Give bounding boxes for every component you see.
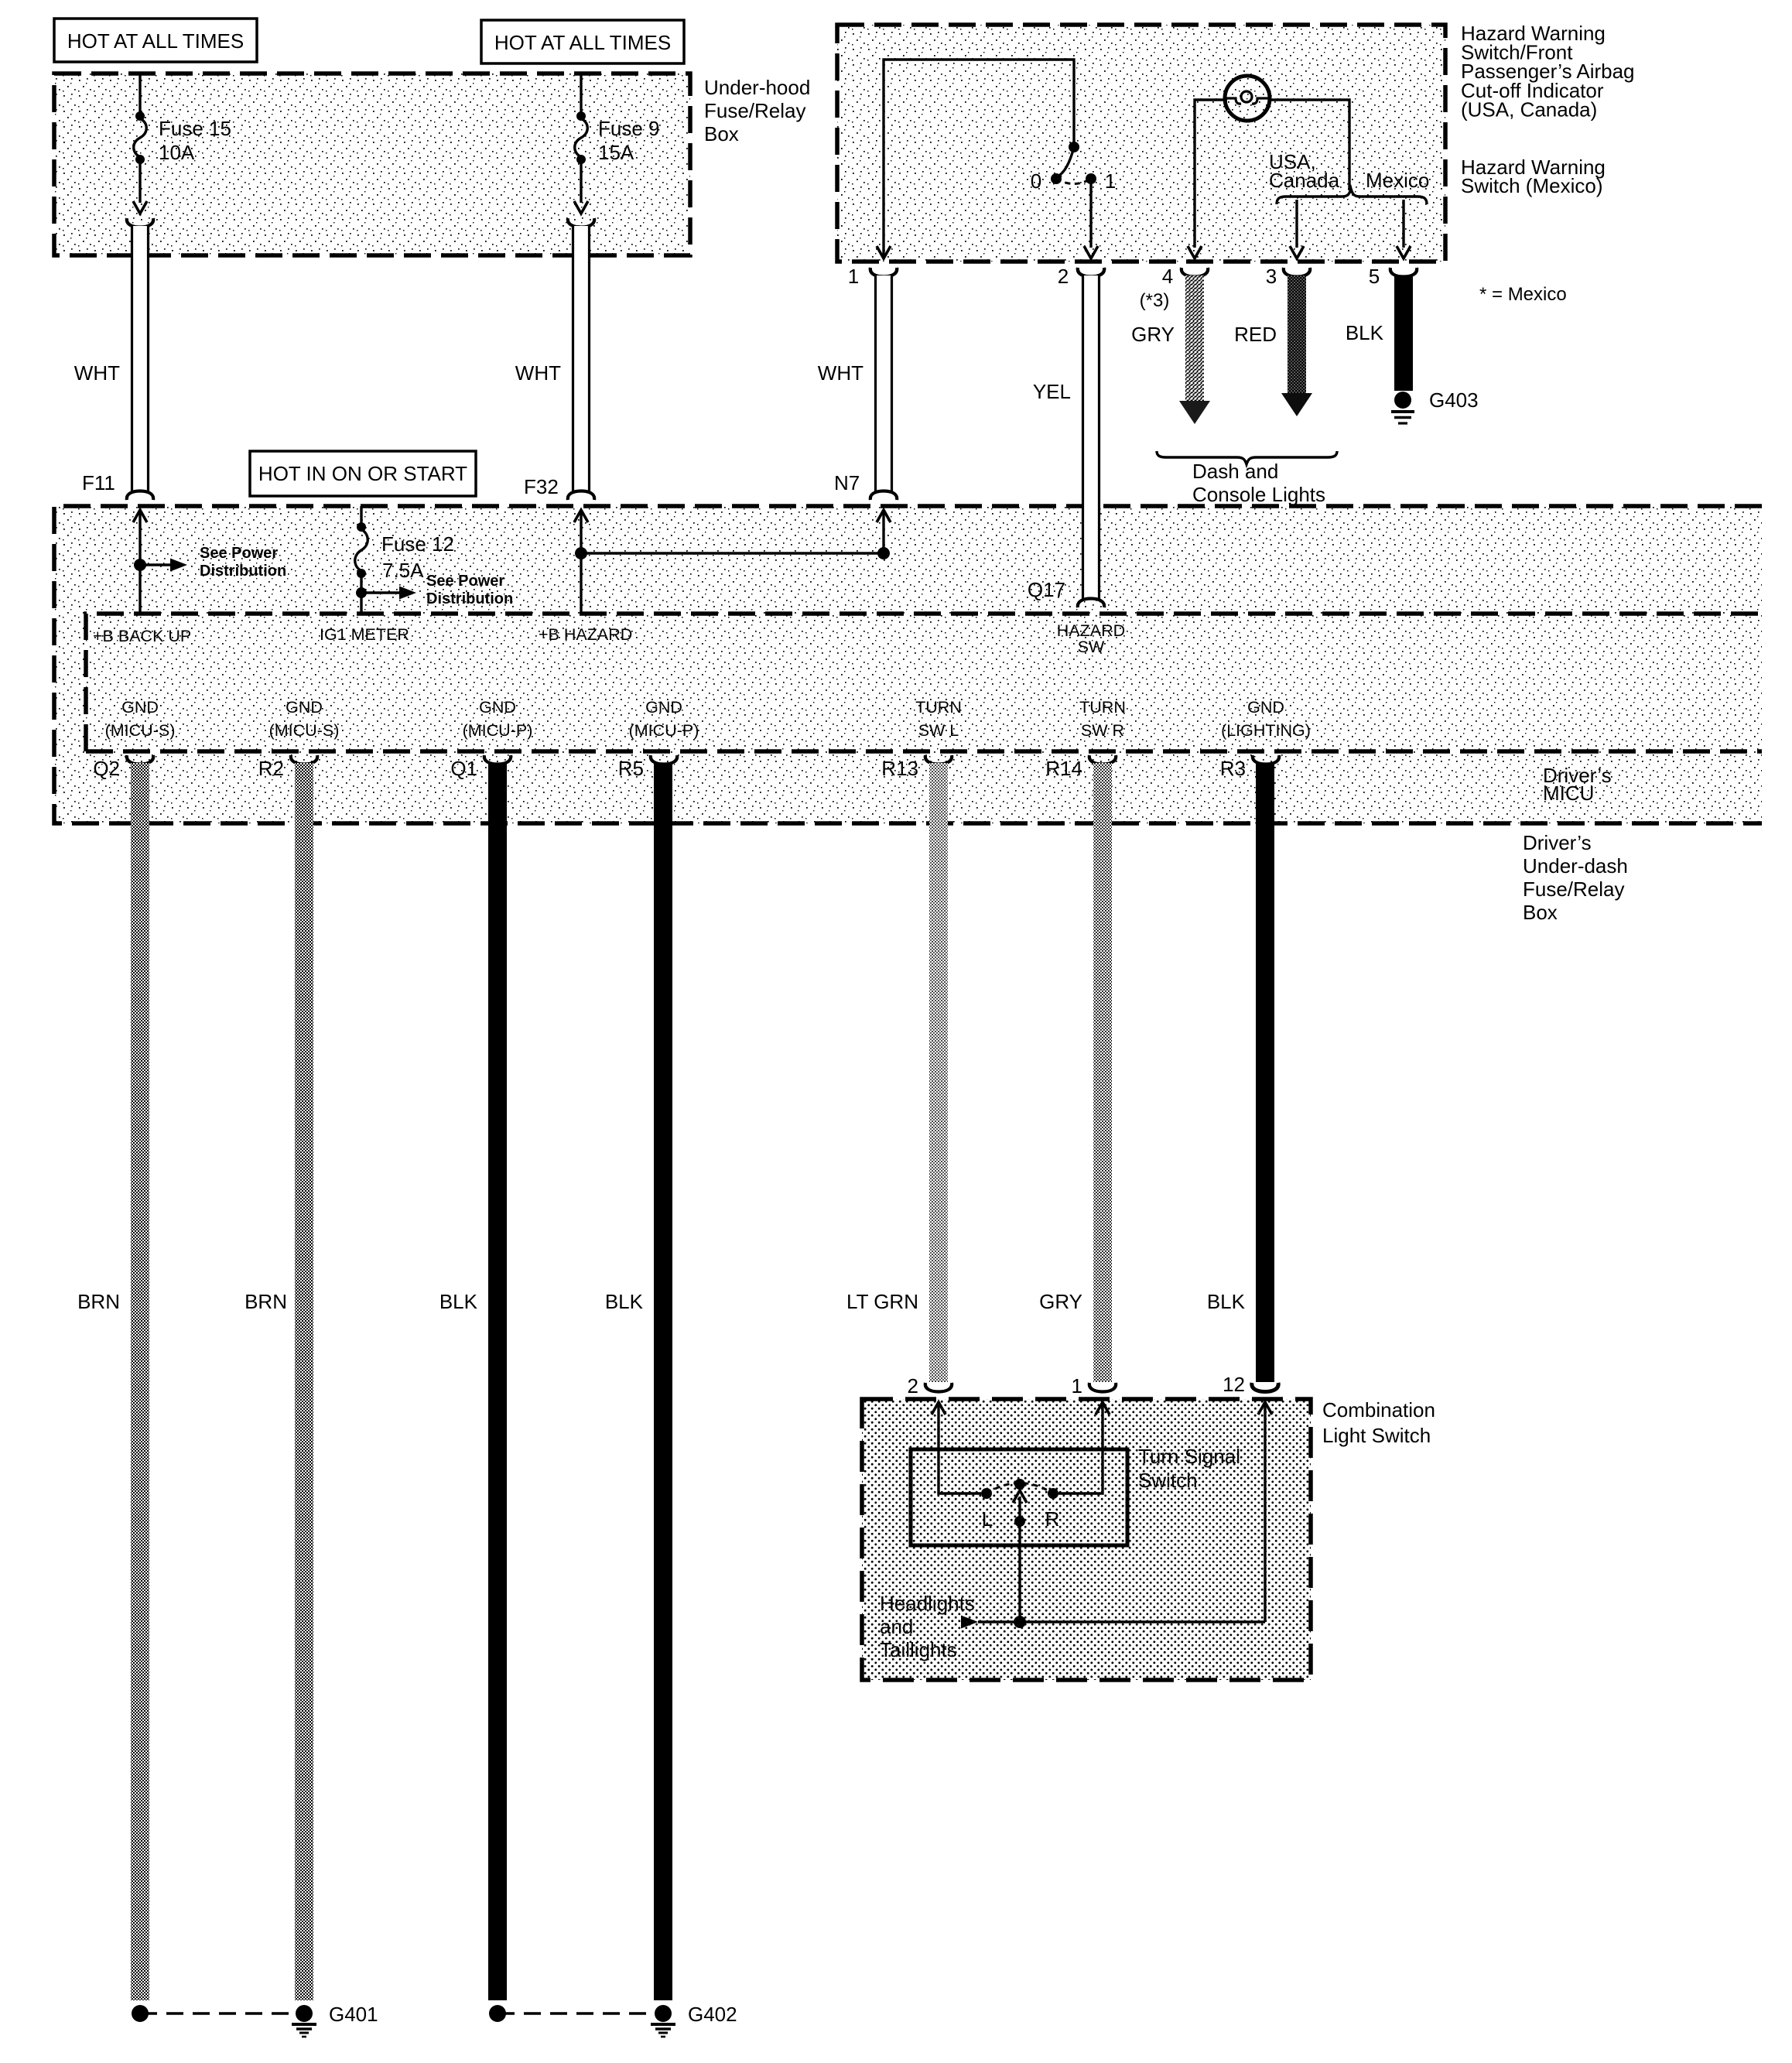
MICU pin function labels (105, 698, 1311, 740)
svg-text:TURN: TURN (915, 698, 962, 717)
svg-text:F32: F32 (524, 475, 559, 498)
wire hazard pin 1 internal (877, 60, 1074, 258)
svg-text:Taillights: Taillights (880, 1638, 957, 1661)
svg-text:R2: R2 (258, 757, 284, 780)
wire bulb right lead (1270, 100, 1349, 190)
label WHT (F32 wire) (515, 361, 561, 385)
svg-text:10A: 10A (159, 141, 195, 164)
hazard switch SW1 (0/1) (1031, 142, 1116, 258)
svg-text:Fuse/Relay: Fuse/Relay (1523, 878, 1625, 901)
svg-text:MICU: MICU (1543, 782, 1594, 805)
wire YEL hazard pin 2 to Q17 (1078, 268, 1104, 607)
svg-text:BLK: BLK (605, 1290, 644, 1313)
label Driver's Under-dash Fuse/Relay Box (1523, 831, 1628, 924)
svg-text:* = Mexico: * = Mexico (1479, 284, 1567, 305)
svg-text:(MICU-S): (MICU-S) (105, 721, 176, 740)
svg-text:SW L: SW L (918, 721, 959, 740)
svg-text:L: L (982, 1507, 993, 1531)
label Headlights and Taillights (880, 1592, 975, 1661)
ground G402 (489, 2003, 737, 2037)
svg-text:Headlights: Headlights (880, 1592, 975, 1615)
svg-text:G403: G403 (1429, 388, 1479, 412)
connector F11 (82, 471, 115, 494)
ground G401 (132, 2003, 378, 2037)
fuse 12 7.5A (355, 506, 454, 614)
pin label +B HAZARD (539, 625, 632, 644)
svg-text:Turn Signal: Turn Signal (1138, 1445, 1240, 1468)
label See Power Distribution (middle) (426, 573, 513, 607)
turn signal switch contacts L R and arm (981, 1479, 1059, 1531)
svg-text:5: 5 (1369, 265, 1380, 288)
svg-text:F11: F11 (82, 471, 115, 494)
svg-text:WHT: WHT (74, 361, 120, 385)
svg-text:GND: GND (286, 698, 323, 717)
hazard connector pin cups 1 2 4 3 5 (848, 265, 1417, 311)
svg-text:Switch (Mexico): Switch (Mexico) (1461, 174, 1602, 197)
svg-text:G402: G402 (688, 2003, 737, 2026)
label See Power Distribution (left) (200, 545, 286, 580)
svg-text:0: 0 (1031, 169, 1041, 193)
svg-text:Switch: Switch (1138, 1469, 1198, 1492)
label Under-hood Fuse/Relay Box (704, 76, 810, 145)
wire bulb left lead to pin 4 (1195, 100, 1227, 248)
svg-text:1: 1 (1072, 1374, 1082, 1398)
label Hazard Warning Switch/Front Passenger's Airbag Cut-off Indicator (USA, Canada) (1461, 22, 1635, 121)
svg-text:Combination: Combination (1322, 1398, 1435, 1422)
svg-text:LT GRN: LT GRN (846, 1290, 918, 1313)
svg-text:Fuse 9: Fuse 9 (598, 117, 660, 140)
label BLK (Q1) (439, 1290, 478, 1313)
svg-text:12: 12 (1223, 1373, 1245, 1396)
pin label HAZARD SW (1057, 621, 1125, 656)
svg-text:YEL: YEL (1033, 380, 1071, 403)
power source label HOT IN ON OR START (250, 451, 476, 496)
wire BLK R5 to G402 (654, 763, 672, 2000)
svg-text:BLK: BLK (1207, 1290, 1246, 1313)
driver's MICU inner dashed box (86, 614, 1762, 751)
wire BLK Q1 to G402 (488, 763, 507, 2000)
fuse 9 15A (574, 74, 660, 214)
svg-text:R14: R14 (1045, 757, 1082, 780)
svg-text:GRY: GRY (1131, 323, 1175, 346)
MICU connector cups Q2 R2 Q1 R5 R13 R14 R3 (127, 755, 1279, 765)
label GRY (R14) (1039, 1290, 1082, 1313)
power source label HOT AT ALL TIMES (left) (54, 19, 257, 62)
brace Dash and Console Lights (1157, 451, 1337, 464)
under-hood fuse/relay box (54, 74, 690, 255)
svg-text:Mexico: Mexico (1366, 169, 1429, 192)
svg-text:TURN: TURN (1079, 698, 1126, 717)
wire BRN Q2 to G401 (131, 763, 149, 2000)
svg-text:+B BACK UP: +B BACK UP (93, 627, 191, 645)
brace USA-Canada/Mexico (1277, 189, 1427, 204)
wire brace to pin 3 (1290, 200, 1304, 258)
svg-text:GND: GND (121, 698, 159, 717)
svg-text:RED: RED (1234, 323, 1277, 346)
svg-text:Fuse 15: Fuse 15 (159, 117, 231, 140)
combination switch pin cups 2 1 12 (908, 1373, 1279, 1398)
wire BLK hazard pin 5 to G403 (1394, 275, 1413, 391)
label YEL (1033, 380, 1071, 403)
svg-text:R13: R13 (881, 757, 918, 780)
pin label IG1 METER (320, 625, 409, 644)
node N7 riser and link wire (581, 510, 891, 559)
label Turn Signal Switch (1138, 1445, 1240, 1492)
svg-text:BLK: BLK (1346, 321, 1384, 344)
svg-text:Dash and: Dash and (1192, 460, 1278, 483)
svg-text:WHT: WHT (818, 361, 864, 385)
wire WHT F32 (568, 218, 594, 500)
svg-text:GRY: GRY (1039, 1290, 1082, 1313)
svg-text:G401: G401 (329, 2003, 378, 2026)
svg-text:HOT IN ON OR START: HOT IN ON OR START (258, 462, 467, 485)
ground G403 (1391, 388, 1479, 423)
svg-text:2: 2 (1058, 265, 1069, 288)
svg-text:4: 4 (1162, 265, 1173, 288)
label BLK (pin 5) (1346, 321, 1384, 344)
svg-text:GND: GND (1247, 698, 1284, 717)
connector N7 (834, 471, 860, 494)
svg-text:SW: SW (1078, 638, 1105, 656)
svg-text:1: 1 (1105, 169, 1116, 193)
svg-text:(*3): (*3) (1140, 290, 1170, 311)
svg-text:GND: GND (645, 698, 682, 717)
svg-text:Box: Box (1523, 901, 1558, 924)
svg-text:SW R: SW R (1081, 721, 1124, 740)
svg-text:R: R (1045, 1507, 1060, 1531)
svg-text:HOT AT ALL TIMES: HOT AT ALL TIMES (67, 29, 244, 53)
label GRY (pin 4) (1131, 323, 1175, 346)
svg-text:HOT AT ALL TIMES: HOT AT ALL TIMES (494, 31, 671, 54)
wire pin 1 to R contact (1058, 1402, 1110, 1493)
svg-text:Canada: Canada (1269, 169, 1340, 192)
node headlights and taillights (961, 1616, 1265, 1629)
label BLK (R5) (605, 1290, 644, 1313)
svg-text:1: 1 (848, 265, 859, 288)
svg-text:(MICU-S): (MICU-S) (269, 721, 340, 740)
svg-text:Fuse 12: Fuse 12 (381, 532, 454, 556)
svg-text:IG1 METER: IG1 METER (320, 625, 409, 644)
label USA Canada / Mexico (1269, 150, 1429, 192)
wire GRY hazard pin 4 stub with arrow (1179, 275, 1210, 424)
arrow into pin 4 (1188, 246, 1202, 258)
svg-text:BRN: BRN (77, 1290, 120, 1313)
wire brace to pin 5 (1397, 200, 1411, 258)
label Hazard Warning Switch (Mexico) (1461, 156, 1606, 197)
wire RED hazard pin 3 with arrow (1281, 275, 1312, 416)
svg-text:Q2: Q2 (93, 757, 120, 780)
svg-text:3: 3 (1266, 265, 1277, 288)
wire GRY R14 to combination switch pin 1 (1093, 763, 1112, 1382)
svg-text:WHT: WHT (515, 361, 561, 385)
wire WHT N7 (870, 268, 897, 500)
svg-text:7.5A: 7.5A (382, 559, 424, 582)
svg-text:Driver’s: Driver’s (1523, 831, 1592, 854)
label Driver's MICU (1543, 764, 1612, 805)
svg-text:(MICU-P): (MICU-P) (463, 721, 533, 740)
svg-text:Q1: Q1 (450, 757, 477, 780)
label WHT (N7 wire) (818, 361, 864, 385)
svg-text:(USA, Canada): (USA, Canada) (1461, 98, 1597, 121)
label WHT (F11 wire) (74, 361, 120, 385)
wire LT GRN R13 to combination switch pin 2 (929, 763, 948, 1382)
svg-text:See Power: See Power (200, 545, 278, 562)
label RED (1234, 323, 1277, 346)
label BRN (R2) (245, 1290, 287, 1313)
svg-text:+B HAZARD: +B HAZARD (539, 625, 632, 644)
svg-text:Light Switch: Light Switch (1322, 1424, 1431, 1447)
svg-text:Under-dash: Under-dash (1523, 854, 1628, 878)
wire BLK R3 to combination switch pin 12 (1256, 763, 1274, 1382)
combination light switch box (dashed) (862, 1399, 1311, 1680)
svg-text:R3: R3 (1220, 757, 1246, 780)
pin labels Q2 R2 Q1 R5 R13 R14 R3 (93, 757, 1246, 780)
hazard warning switch box (dashed) (837, 25, 1445, 262)
svg-text:2: 2 (908, 1374, 918, 1398)
label BRN (Q2) (77, 1290, 120, 1313)
wire node to pin 12 (1258, 1402, 1272, 1622)
svg-text:See Power: See Power (426, 573, 504, 590)
label LT GRN (846, 1290, 918, 1313)
wire BRN R2 to G401 (295, 763, 313, 2000)
wire pin 2 to L contact (932, 1402, 981, 1493)
svg-text:Distribution: Distribution (200, 563, 286, 580)
svg-text:(MICU-P): (MICU-P) (629, 721, 699, 740)
svg-text:BLK: BLK (439, 1290, 478, 1313)
svg-text:Fuse/Relay: Fuse/Relay (704, 99, 806, 122)
svg-text:Under-hood: Under-hood (704, 76, 810, 99)
wire WHT F11 (127, 218, 153, 500)
svg-text:Console Lights: Console Lights (1192, 483, 1325, 506)
node +B BACK UP riser (133, 510, 187, 614)
connector Q17 (1028, 578, 1065, 601)
svg-text:N7: N7 (834, 471, 860, 494)
pin label +B BACK UP (93, 627, 191, 645)
svg-text:(LIGHTING): (LIGHTING) (1221, 721, 1311, 740)
turn signal switch rectangle (911, 1449, 1127, 1545)
svg-text:Distribution: Distribution (426, 590, 513, 607)
label Combination Light Switch (1322, 1398, 1435, 1447)
driver's under-dash fuse/relay box (outer dashed) (54, 506, 1762, 823)
svg-text:and: and (880, 1615, 913, 1638)
power source label HOT AT ALL TIMES (right) (481, 20, 684, 63)
svg-text:Q17: Q17 (1028, 578, 1065, 601)
label BLK (R3) (1207, 1290, 1246, 1313)
svg-text:GND: GND (479, 698, 516, 717)
svg-text:R5: R5 (618, 757, 644, 780)
indicator bulb (airbag cut-off indicator) (1225, 76, 1270, 121)
svg-text:Box: Box (704, 122, 739, 145)
svg-text:BRN: BRN (245, 1290, 287, 1313)
label Dash and Console Lights (1192, 460, 1325, 506)
note * = Mexico (1479, 284, 1567, 305)
connector F32 (524, 475, 559, 498)
wire switch arm to headlights node (1018, 1521, 1021, 1622)
node +B HAZARD riser (574, 510, 588, 614)
svg-text:15A: 15A (598, 141, 634, 164)
fuse 15 10A (133, 74, 231, 214)
